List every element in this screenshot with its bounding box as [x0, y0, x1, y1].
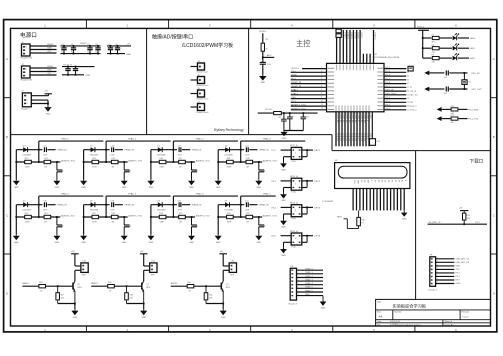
svg-text:TXD2_2: TXD2_2	[410, 110, 417, 112]
svg-text:37: 37	[346, 61, 348, 63]
svg-text:5: 5	[321, 82, 322, 84]
svg-text:35: 35	[352, 61, 354, 63]
wire J1 pin1	[30, 44, 57, 46]
svg-text:LCD_D2: LCD_D2	[342, 134, 344, 141]
svg-text:+5V: +5V	[459, 207, 463, 209]
IC U2 top pin labels	[336, 33, 376, 64]
svg-text:P35/T3: P35/T3	[347, 33, 349, 39]
svg-text:PWM4_IN: PWM4_IN	[57, 205, 67, 207]
power bar download +5V	[459, 207, 469, 210]
svg-text:330R: 330R	[25, 222, 30, 224]
svg-text:P5.4: P5.4	[291, 78, 296, 80]
svg-text:1M: 1M	[246, 167, 249, 169]
label board title line1	[152, 33, 193, 40]
svg-text:R19: R19	[246, 158, 249, 160]
svg-text:GND: GND	[305, 294, 310, 296]
svg-text:A: A	[6, 57, 8, 61]
wire S4 pin3	[302, 236, 321, 238]
svg-text:D3: D3	[384, 180, 386, 182]
IC U2 bottom pin labels	[336, 114, 371, 142]
resistor R13	[44, 158, 51, 168]
LED D9	[453, 33, 459, 40]
svg-text:BEEP2: BEEP2	[91, 283, 99, 285]
wire TP5 left vertical	[83, 205, 85, 235]
wire TP2 PWM_IN	[182, 150, 202, 152]
svg-text:GND: GND	[73, 317, 78, 319]
svg-text:GND: GND	[456, 266, 461, 268]
wire LED row 2 right	[458, 48, 476, 50]
svg-text:GND: GND	[47, 48, 52, 50]
svg-text:GND: GND	[260, 82, 265, 84]
svg-text:ADKEY0_TOU: ADKEY0_TOU	[61, 159, 75, 162]
wire TP6 PWM_IN	[182, 205, 202, 207]
svg-text:35: 35	[407, 72, 409, 74]
svg-text:P3.0_RXD: P3.0_RXD	[468, 109, 479, 111]
capacitor C30 shunt	[259, 217, 266, 234]
IC U2 pin13 capacitor C10	[370, 112, 382, 146]
svg-text:12: 12	[321, 108, 323, 110]
resistor R12	[25, 158, 32, 168]
svg-text:22: 22	[363, 114, 365, 116]
component X2 touch	[462, 73, 471, 89]
svg-text:R7: R7	[432, 35, 434, 37]
ground TP5 right	[121, 234, 128, 244]
svg-text:1N4148W: 1N4148W	[90, 210, 99, 212]
capacitor C23 shunt	[57, 162, 64, 179]
svg-text:+5V: +5V	[71, 251, 75, 253]
wire S3 pin3	[302, 207, 321, 209]
crystal Y1	[287, 112, 294, 130]
svg-text:KEY_OUT: KEY_OUT	[472, 89, 483, 91]
wire TP1 junction vertical	[105, 141, 107, 163]
LCD U3 pin labels	[352, 180, 406, 193]
resistor R5 1K	[261, 39, 269, 51]
svg-text:GND: GND	[282, 138, 287, 140]
svg-text:15: 15	[342, 114, 344, 116]
svg-text:D6: D6	[394, 180, 396, 182]
connector J6 touch pad	[197, 88, 209, 101]
svg-text:LCD_D1: LCD_D1	[339, 134, 341, 141]
svg-text:36: 36	[407, 68, 409, 70]
svg-text:PWM2_IN: PWM2_IN	[291, 86, 301, 88]
svg-text:XTAL2: XTAL2	[291, 92, 298, 95]
wire TP1 left vertical	[83, 150, 85, 180]
svg-text:ADC: ADC	[267, 54, 272, 57]
resistor R17	[179, 158, 186, 168]
svg-text:1: 1	[295, 153, 296, 155]
svg-text:R13: R13	[44, 158, 47, 160]
transistor Q3 NPN	[221, 281, 230, 303]
svg-text:+5V: +5V	[44, 91, 48, 93]
svg-text:6: 6	[321, 85, 322, 87]
speaker LS2	[150, 260, 157, 276]
svg-text:GND: GND	[281, 200, 286, 202]
svg-text:GND: GND	[321, 308, 326, 310]
svg-text:P1.0: P1.0	[386, 101, 391, 103]
svg-text:1: 1	[352, 191, 353, 193]
capacitor C16 series	[110, 145, 115, 156]
wire S1 pin4	[302, 149, 308, 157]
svg-text:PWM3_IN: PWM3_IN	[259, 150, 269, 152]
ground TP1 left	[80, 179, 87, 189]
svg-text:P3.1: P3.1	[475, 222, 480, 224]
svg-text:2: 2	[298, 272, 299, 274]
svg-text:2: 2	[295, 183, 296, 185]
ground TP7 right	[255, 234, 262, 244]
svg-text:32: 32	[362, 61, 364, 63]
svg-text:TPAD_3: TPAD_3	[263, 138, 272, 141]
svg-text:PWM7_IN: PWM7_IN	[259, 205, 269, 207]
svg-text:13: 13	[336, 114, 338, 116]
section divider lcd/download	[415, 151, 417, 300]
svg-text:STC8H8K64U-45I-LQFP48: STC8H8K64U-45I-LQFP48	[374, 57, 400, 59]
svg-text:TPAD_2: TPAD_2	[305, 275, 314, 278]
svg-text:16: 16	[345, 114, 347, 116]
wire Q1 emitter	[58, 303, 76, 310]
resistor R31 pulldown	[204, 286, 213, 303]
switch S3	[290, 202, 302, 221]
svg-text:GND: GND	[256, 187, 261, 189]
wire TP7 diode row	[218, 204, 244, 206]
svg-text:Number: Number	[395, 311, 402, 313]
wire TP1 resistor row	[83, 161, 128, 163]
svg-text:330R: 330R	[92, 222, 97, 224]
svg-text:R8: R8	[432, 45, 434, 47]
resistor R11	[451, 115, 458, 124]
title block text	[377, 301, 469, 327]
svg-text:ADKEY2_TOU: ADKEY2_TOU	[291, 107, 306, 110]
svg-text:11: 11	[386, 191, 388, 193]
diode D3 1N4148	[224, 145, 233, 156]
IC U2 right pins	[384, 69, 406, 110]
svg-text:Header 8: Header 8	[429, 289, 438, 291]
port arrow RXD	[437, 107, 451, 112]
wire ADC stub	[263, 54, 275, 57]
wire TP4 junction vertical	[38, 196, 40, 218]
svg-text:GND: GND	[86, 75, 91, 77]
svg-text:3: 3	[321, 74, 322, 76]
svg-text:P4.1: P4.1	[369, 134, 371, 138]
wire LED row 1 left	[423, 37, 432, 39]
LCD module U3 body	[335, 160, 410, 188]
svg-text:Header 1X3: Header 1X3	[21, 57, 33, 60]
svg-text:+5V: +5V	[127, 44, 131, 46]
svg-text:19: 19	[354, 114, 356, 116]
svg-text:4: 4	[321, 78, 322, 80]
wire LED row 3 mid	[439, 57, 452, 59]
wire TP4 resistor row	[15, 216, 60, 218]
wire TP7 top net	[241, 193, 276, 197]
wire Q3 emitter	[206, 303, 224, 310]
svg-text:330R: 330R	[25, 167, 30, 169]
wire Q1 collector rail	[75, 254, 81, 266]
wire TP6 junction vertical	[173, 196, 175, 218]
svg-text:Header 8: Header 8	[289, 304, 298, 306]
svg-text:33: 33	[407, 79, 409, 81]
wire TP1 PWM_IN	[115, 150, 135, 152]
svg-text:R30: R30	[188, 282, 191, 284]
wire TP0 resistor row	[15, 161, 60, 163]
label download right	[475, 222, 480, 224]
svg-text:TPAD_3: TPAD_3	[305, 279, 314, 282]
svg-text:GND: GND	[126, 54, 131, 56]
wire TP3 left vertical	[217, 150, 219, 180]
section divider power/title	[146, 28, 148, 134]
svg-text:Date:: Date:	[377, 320, 382, 323]
svg-text:R21: R21	[44, 213, 47, 215]
connector P8 wires	[297, 270, 324, 295]
wire J2 pin1	[30, 66, 57, 68]
svg-text:1M: 1M	[44, 222, 47, 224]
svg-text:LED1: LED1	[470, 48, 476, 50]
svg-text:RXD2_2: RXD2_2	[410, 106, 417, 108]
svg-text:38: 38	[342, 61, 344, 63]
svg-text:A: A	[493, 57, 495, 61]
switch S2	[290, 175, 302, 194]
label VDD5.1	[259, 31, 267, 33]
svg-text:ADKEY7_TOU: ADKEY7_TOU	[263, 214, 277, 217]
svg-text:GND: GND	[221, 317, 226, 319]
ground TP3 right	[255, 179, 262, 189]
svg-text:32: 32	[407, 83, 409, 85]
svg-text:LCD_D1: LCD_D1	[339, 115, 341, 122]
svg-text:104: 104	[87, 52, 90, 54]
svg-text:TPAD_5: TPAD_5	[305, 286, 314, 289]
svg-text:GND: GND	[122, 187, 127, 189]
svg-text:1N4148W: 1N4148W	[22, 155, 31, 157]
svg-text:+5V: +5V	[219, 251, 223, 253]
wire TP2 resistor row	[150, 161, 195, 163]
svg-text:Header touch: Header touch	[197, 111, 209, 114]
wire Q1 collector	[75, 270, 81, 281]
svg-text:5: 5	[298, 283, 299, 285]
wire S1 pin1	[272, 150, 292, 152]
diode D4 1N4148	[22, 200, 31, 211]
wire TP5 junction vertical	[105, 196, 107, 218]
svg-text:P3.1: P3.1	[291, 101, 296, 103]
svg-text:330R: 330R	[159, 222, 164, 224]
capacitor C14 104	[444, 87, 449, 95]
svg-text:P3.0: P3.0	[291, 71, 296, 73]
svg-text:Header touch: Header touch	[197, 71, 209, 74]
wire S1 pin2	[284, 157, 292, 162]
wire Q1 base2	[46, 285, 74, 287]
svg-text:KEY1_A: KEY1_A	[290, 144, 298, 147]
svg-text:1: 1	[321, 67, 322, 69]
section divider horizontal right	[332, 150, 491, 152]
svg-text:VIN5V: VIN5V	[80, 43, 87, 45]
capacitor bank C7-C8 labels	[63, 65, 91, 77]
ground S4	[280, 248, 287, 257]
wire TP3 junction vertical	[240, 141, 242, 163]
svg-text:7: 7	[373, 191, 374, 193]
svg-text:104: 104	[128, 171, 131, 173]
wire LED row 1 mid	[439, 37, 452, 39]
svg-text:VSS: VSS	[291, 97, 296, 99]
svg-text:TS-A: TS-A	[291, 160, 296, 163]
svg-text:P1.6: P1.6	[386, 71, 391, 73]
svg-text:R25: R25	[179, 213, 182, 215]
svg-text:LCD_D2: LCD_D2	[342, 115, 344, 122]
svg-text:CLK_IN: CLK_IN	[410, 91, 417, 93]
transistor Q2 NPN	[142, 281, 151, 303]
svg-text:+5V: +5V	[47, 73, 51, 75]
svg-text:VCC5.1: VCC5.1	[417, 27, 425, 29]
svg-text:+5V: +5V	[47, 51, 51, 53]
svg-text:TPAD_7: TPAD_7	[263, 193, 272, 196]
wire TP0 top net	[39, 138, 104, 142]
capacitor C18 series	[245, 145, 250, 156]
svg-text:R24: R24	[159, 213, 162, 215]
ground S1	[280, 162, 287, 171]
svg-text:R20: R20	[25, 213, 28, 215]
diode D7 1N4148	[224, 200, 233, 211]
svg-text:D0: D0	[374, 180, 376, 182]
svg-text:Drawn By:: Drawn By:	[445, 324, 455, 326]
svg-text:PWM1_IN: PWM1_IN	[291, 82, 301, 84]
svg-text:P1.1: P1.1	[386, 97, 391, 99]
svg-text:+5V: +5V	[140, 251, 144, 253]
wire TP5 resistor row	[83, 216, 128, 218]
ground TP0 left	[13, 179, 20, 189]
svg-text:Header 3: Header 3	[21, 107, 31, 110]
svg-text:P06/T4: P06/T4	[350, 33, 352, 39]
svg-text:KEY_IN: KEY_IN	[386, 90, 394, 92]
svg-text:15: 15	[400, 191, 402, 193]
speaker LS3	[229, 260, 236, 276]
svg-text:P1.4: P1.4	[386, 78, 391, 80]
svg-text:5: 5	[25, 53, 26, 55]
svg-text:BEEP3: BEEP3	[171, 283, 179, 285]
svg-text:R31: R31	[467, 215, 470, 217]
IC U2 top pins	[337, 30, 374, 63]
svg-text:P1.5: P1.5	[386, 75, 391, 77]
wire LED row 2 mid	[439, 47, 452, 49]
resistor R20	[25, 213, 32, 223]
svg-text:下载口: 下载口	[470, 157, 484, 164]
svg-text:17: 17	[348, 114, 350, 116]
svg-text:PWM0_IN: PWM0_IN	[57, 150, 67, 152]
diode D1 1N4148	[90, 145, 99, 156]
wire J7 pin1	[191, 106, 198, 108]
svg-text:KEY2_A: KEY2_A	[290, 175, 298, 178]
ground VDD filter	[259, 75, 267, 85]
connector J2	[21, 64, 33, 82]
label U2 refdes	[374, 54, 378, 56]
wire Q2 collector	[144, 270, 150, 281]
ground TP7 left	[215, 234, 222, 244]
section divider step	[331, 135, 333, 151]
svg-text:R10: R10	[451, 106, 454, 108]
svg-text:RST: RST	[456, 280, 461, 282]
wire Q3 collector rail	[223, 254, 229, 266]
wire TXD right	[459, 119, 479, 121]
diode D6 1N4148	[157, 200, 166, 211]
wire download net	[428, 223, 487, 225]
svg-text:330R: 330R	[227, 222, 232, 224]
svg-text:104: 104	[71, 52, 74, 54]
svg-text:R26: R26	[39, 282, 42, 284]
svg-text:GND: GND	[55, 187, 60, 189]
wire TP0 left vertical	[15, 150, 17, 180]
svg-text:GND: GND	[141, 317, 146, 319]
LCD U3 pins	[353, 189, 404, 211]
wire Q2 collector rail	[144, 254, 150, 266]
label U2 partnumber	[374, 57, 400, 59]
capacitor C13 104	[444, 70, 449, 78]
svg-text:Sheet of: Sheet of	[445, 320, 453, 323]
capacitor C22 series	[245, 200, 250, 211]
svg-text:LCD_D3: LCD_D3	[345, 115, 347, 122]
wire TP6 top net	[173, 193, 238, 197]
svg-text:GND: GND	[122, 242, 127, 244]
svg-text:USB_DET_RX: USB_DET_RX	[456, 262, 470, 264]
svg-text:LCD_D3: LCD_D3	[345, 134, 347, 141]
svg-text:GND: GND	[402, 218, 407, 220]
svg-text:Header 1X3: Header 1X3	[21, 79, 33, 82]
svg-text:ADKEY6_TOU: ADKEY6_TOU	[196, 214, 210, 217]
svg-text:8: 8	[321, 93, 322, 95]
svg-text:LCD_D4: LCD_D4	[348, 134, 350, 141]
wire J2 pin2	[30, 70, 57, 72]
svg-text:R15: R15	[112, 158, 115, 160]
svg-text:16: 16	[403, 191, 405, 193]
svg-text:P3.6: P3.6	[386, 108, 391, 110]
resistor R14	[92, 158, 99, 168]
svg-text:P31/T7: P31/T7	[360, 33, 362, 39]
svg-text:14: 14	[339, 114, 341, 116]
connector J5 touch pad	[197, 75, 209, 88]
wire S3 pin2	[284, 214, 292, 219]
svg-text:LCD_D7: LCD_D7	[357, 134, 359, 141]
svg-text:VDD5.1: VDD5.1	[259, 31, 267, 33]
svg-text:104: 104	[262, 171, 265, 173]
svg-text:NET1: NET1	[337, 217, 343, 219]
resistor R28 base	[108, 282, 115, 292]
capacitor C26 shunt	[259, 162, 266, 179]
svg-text:23: 23	[366, 114, 368, 116]
svg-text:BEEP1: BEEP1	[22, 283, 30, 285]
svg-text:104: 104	[61, 52, 64, 54]
wire TP7 PWM_IN	[249, 205, 269, 207]
wire TP4 PWM_IN	[47, 205, 67, 207]
diode D2 1N4148	[157, 145, 166, 156]
resistor R25	[179, 213, 186, 223]
svg-text:+5V: +5V	[86, 67, 90, 69]
svg-text:TS-A: TS-A	[291, 217, 296, 220]
svg-text:330R: 330R	[159, 167, 164, 169]
svg-text:KEY2: KEY2	[315, 181, 321, 183]
svg-text:ADKEY2_TOU: ADKEY2_TOU	[196, 159, 210, 162]
svg-text:LCD_D4: LCD_D4	[348, 115, 350, 122]
resistor R18	[227, 158, 234, 168]
svg-text:LCD_D0: LCD_D0	[336, 115, 338, 122]
IC U2 internal pin names	[328, 65, 383, 111]
svg-text:ADKEY5_TOU: ADKEY5_TOU	[128, 214, 142, 217]
svg-text:NPN: NPN	[146, 287, 151, 289]
svg-text:VIN5V: VIN5V	[47, 66, 54, 68]
svg-text:TPAD_1: TPAD_1	[128, 138, 137, 141]
label ByfanyTechnology	[214, 128, 245, 132]
svg-text:GND: GND	[46, 113, 51, 115]
svg-text:R27: R27	[61, 294, 64, 296]
connector J7 touch pad	[197, 102, 209, 115]
svg-text:KEY_IN: KEY_IN	[472, 73, 480, 75]
svg-text:B: B	[6, 135, 8, 139]
svg-text:GND: GND	[14, 187, 19, 189]
svg-text:R27: R27	[246, 213, 249, 215]
svg-text:RX0: RX0	[410, 102, 414, 104]
